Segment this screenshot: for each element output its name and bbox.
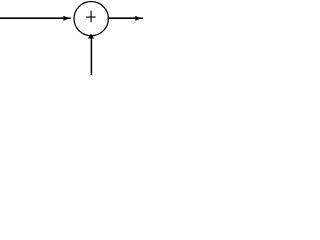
wire: output line [108,17,143,19]
plus sign label [86,11,96,22]
arrowhead: left input arrow [63,16,69,21]
arrowhead: bottom input arrow [88,34,94,39]
wire: left input line [0,17,71,19]
wire: bottom input line [90,35,92,75]
summing junction circle [74,2,108,36]
arrowhead: output arrow (right) [135,16,141,21]
